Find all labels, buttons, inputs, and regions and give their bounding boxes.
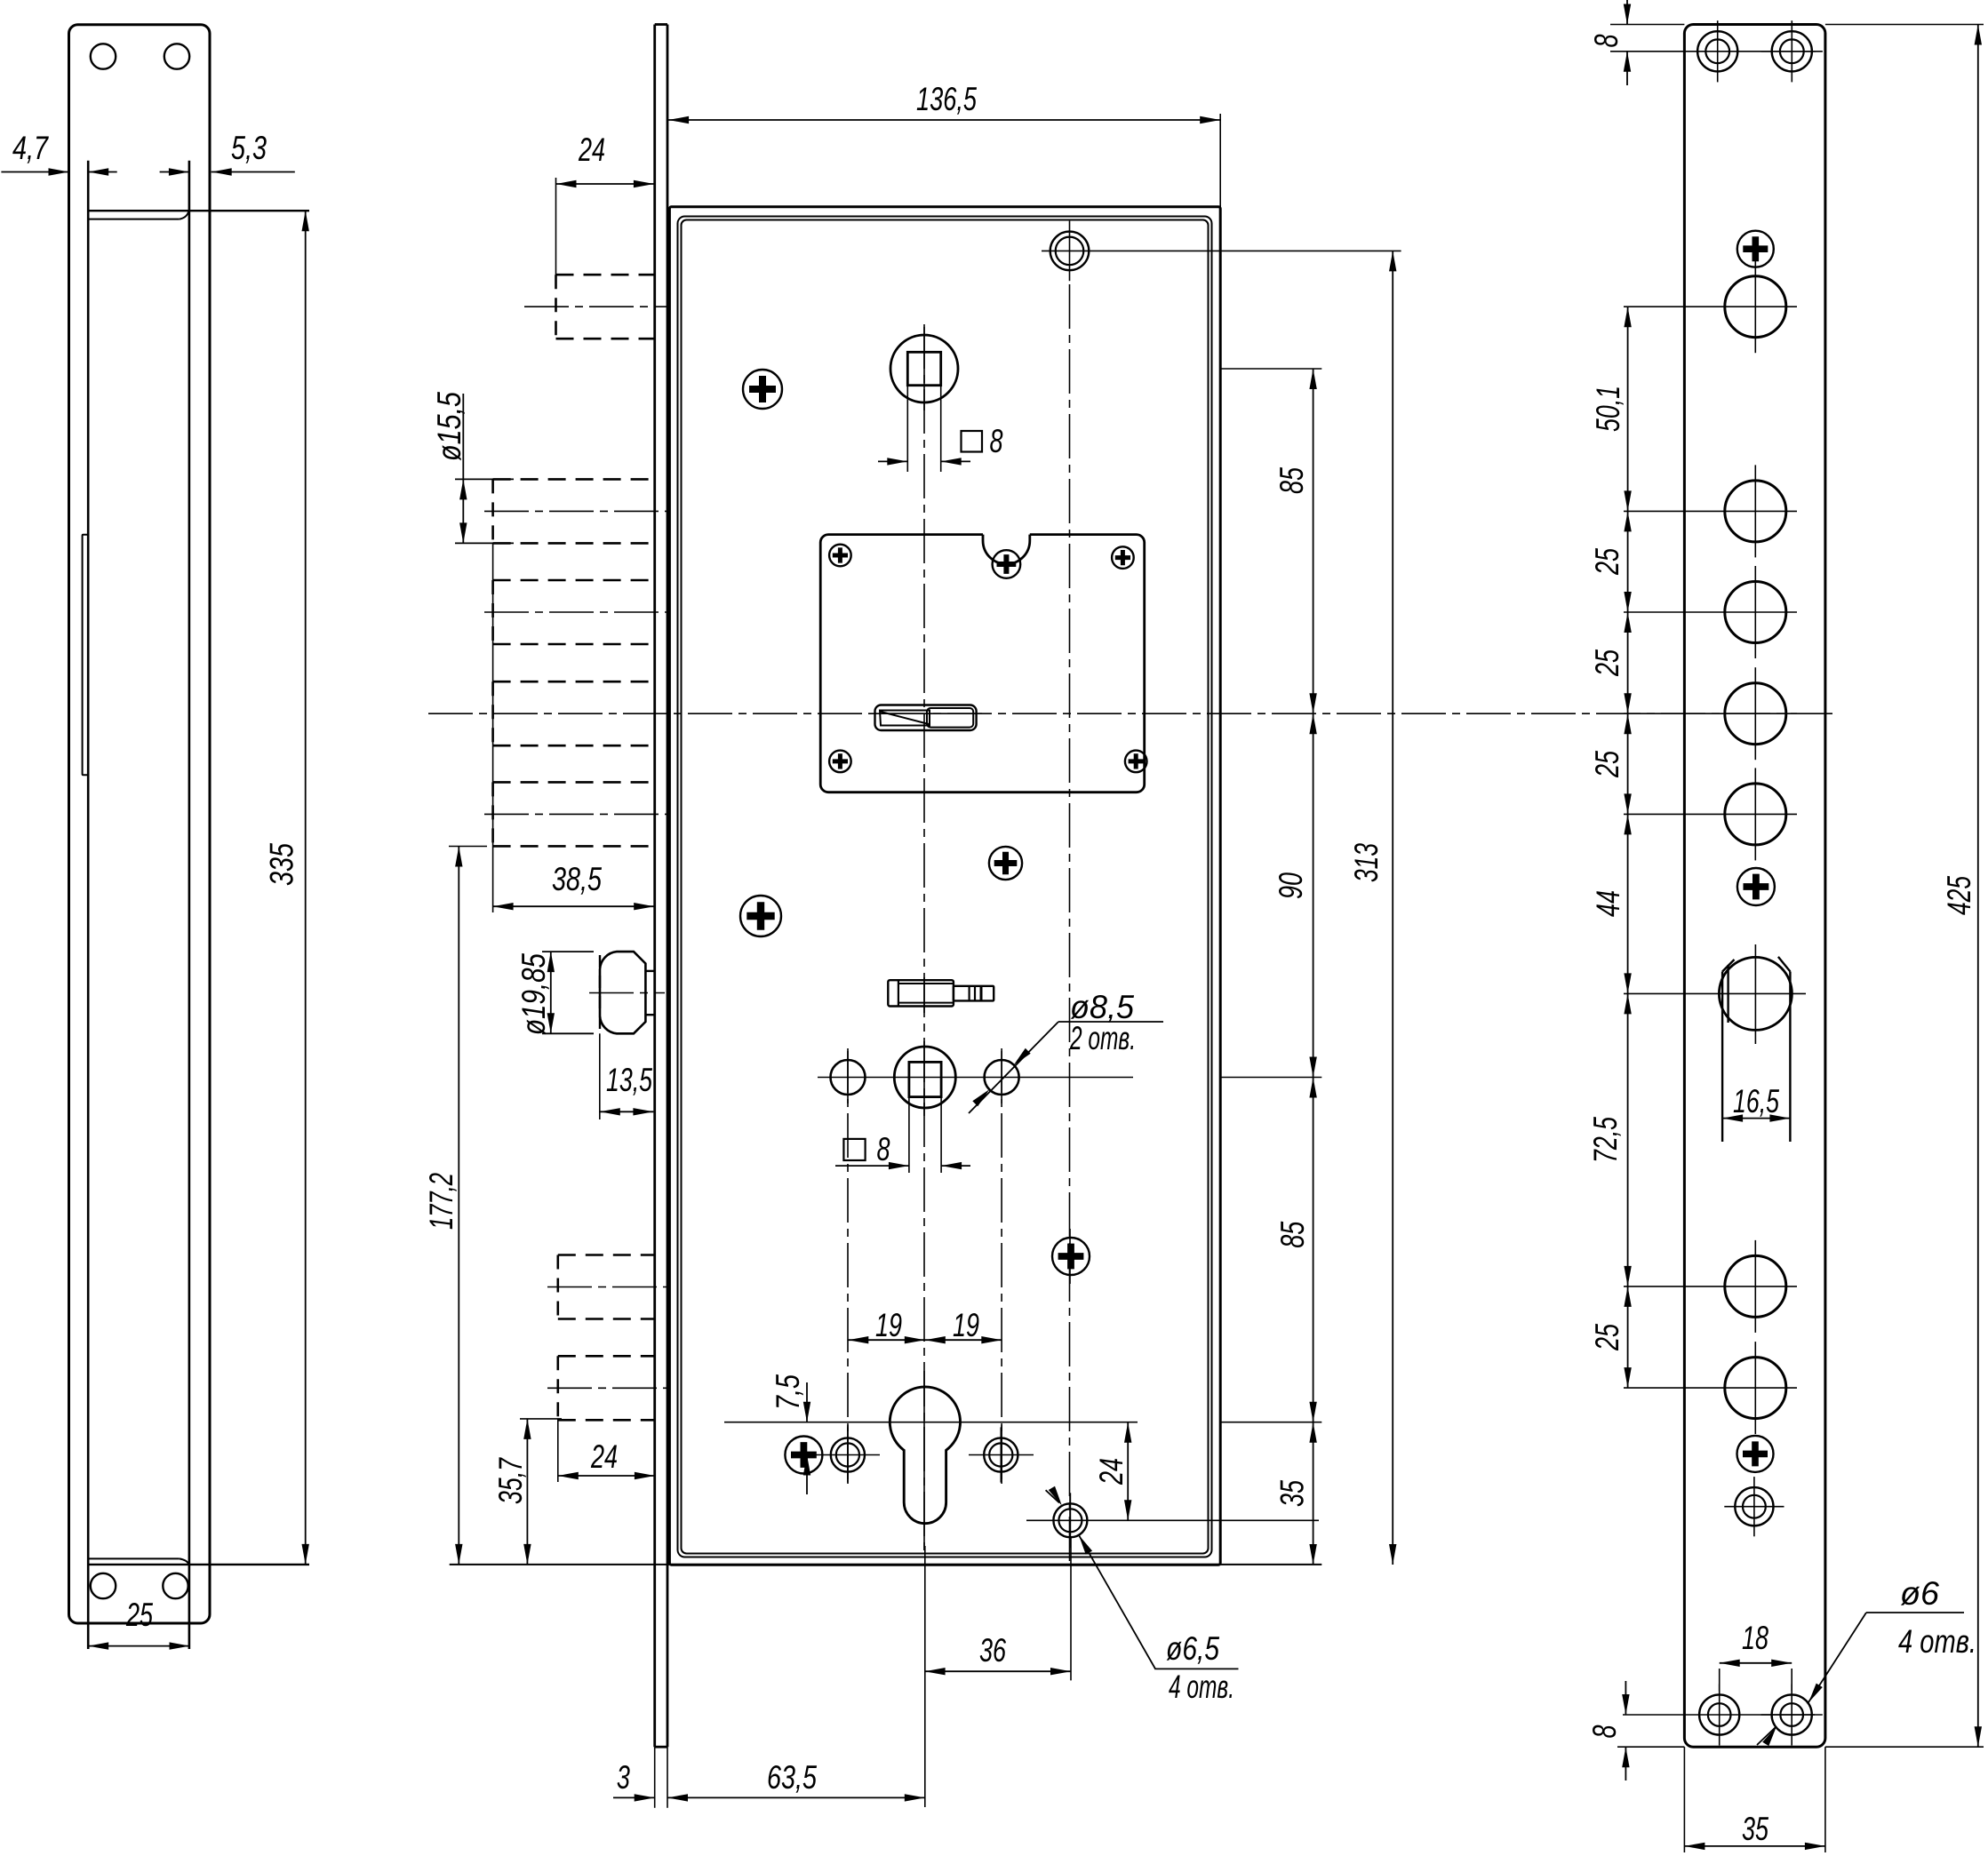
svg-text:63,5: 63,5 — [767, 1759, 817, 1796]
dimension 25 (left view bottom) — [88, 1597, 189, 1650]
svg-text:8: 8 — [1588, 34, 1625, 47]
dimension 313 — [1348, 251, 1396, 1565]
deadbolt B4 top (hidden) — [493, 681, 655, 683]
faceplate strip right line — [667, 25, 669, 1748]
body screw F (lower right) — [1052, 1238, 1090, 1275]
sq8 ext left — [906, 386, 908, 472]
upper spindle square 8x8 — [907, 352, 940, 385]
svg-text:35,7: 35,7 — [492, 1457, 529, 1504]
latch follower (middle view) — [888, 980, 994, 1006]
svg-text:8: 8 — [877, 1131, 890, 1167]
deadbolt B5 bottom (hidden) — [493, 845, 655, 848]
deadbolt B7 face (hidden) — [556, 1356, 559, 1420]
dimension phi 15,5 (deadbolt B2) — [431, 392, 514, 544]
latch flat bottom line — [645, 1014, 654, 1016]
latch window (right view) — [1624, 944, 1806, 1142]
ext left — [555, 178, 557, 275]
deadbolt B2 top (hidden) — [493, 478, 655, 481]
top edge ext left — [1610, 24, 1684, 26]
deadbolt B7 axis — [547, 1387, 667, 1389]
dimension chain 85/90/85/35 — [1220, 369, 1321, 1565]
body screw G (bottom left) — [785, 1437, 822, 1474]
euro profile cylinder hole — [724, 1387, 1321, 1524]
deadbolt B6 face (hidden) — [556, 1255, 559, 1319]
lower spindle square 8x8 — [909, 1062, 941, 1096]
faceplate screw middle — [1737, 868, 1775, 905]
screw in plate notch — [993, 550, 1021, 578]
deadbolt B5 face (hidden) — [491, 782, 494, 846]
faceplate strip bottom edge — [655, 1746, 667, 1748]
svg-text:24: 24 — [590, 1438, 618, 1475]
bottom edge ext left — [1617, 1746, 1684, 1748]
left view top lip line — [88, 219, 180, 220]
svg-text:24: 24 — [578, 131, 605, 168]
svg-text:35: 35 — [1742, 1811, 1768, 1847]
svg-text:7,5: 7,5 — [770, 1374, 806, 1410]
middle view: lock body — [655, 25, 1220, 1808]
left view bottom hole 2 — [163, 1573, 188, 1598]
right inner auxiliary vertical axis — [1001, 1048, 1002, 1479]
dimension 13,5 — [600, 1033, 654, 1119]
latch chamfer right — [1778, 957, 1791, 972]
svg-text:25: 25 — [1589, 1324, 1625, 1351]
deadbolt B7 top (hidden) — [558, 1355, 655, 1358]
svg-text:36: 36 — [979, 1632, 1006, 1669]
svg-text:4 отв.: 4 отв. — [1169, 1669, 1234, 1705]
dimension 38,5 — [493, 543, 655, 912]
deadbolt B4 bottom (hidden) — [493, 745, 655, 747]
deadbolt B1 face (hidden) — [555, 275, 557, 339]
svg-text:3: 3 — [617, 1759, 630, 1796]
square symbol of dim 8 — [962, 431, 983, 452]
svg-text:72,5: 72,5 — [1587, 1117, 1624, 1163]
deadbolt B5 axis — [484, 813, 667, 815]
lock body inner plate outline 2 — [682, 220, 1209, 1554]
svg-text:313: 313 — [1348, 843, 1385, 882]
top fixing screw hole right — [1761, 20, 1823, 82]
deadbolt B3 bottom (hidden) — [493, 643, 655, 646]
washer hole left of cylinder — [796, 1427, 880, 1482]
lower spindle axis extension right — [1220, 1077, 1321, 1079]
dimension 335 (left view) — [264, 211, 309, 1565]
main vertical axis (spindle/cylinder) — [923, 324, 925, 1550]
latch slot right side / ext — [1789, 972, 1791, 1143]
svg-text:38,5: 38,5 — [552, 861, 602, 897]
left view bottom chamfer arc — [180, 1558, 189, 1564]
dimension chain 50,1 / 25x3 / 44 / 72,5 / 25 — [1587, 307, 1632, 1388]
dimension 35 (plate width) — [1684, 1811, 1824, 1850]
left view bottom lip line — [88, 1557, 180, 1559]
dimension 36 — [925, 1537, 1071, 1680]
lower square spindle hub — [835, 1047, 970, 1173]
svg-text:44: 44 — [1590, 890, 1626, 917]
plate corner screw top-left — [829, 545, 851, 567]
dimension phi 19,85 (latch) — [515, 952, 594, 1035]
dimension 24 (top deadbolt) — [556, 131, 654, 275]
left view top hole 1 — [91, 44, 116, 68]
deadbolt B2 axis — [484, 510, 667, 512]
svg-text:ø19,85: ø19,85 — [515, 953, 552, 1035]
deadbolt B1 bottom (hidden) — [556, 338, 655, 340]
dimension 24 (cylinder to washer) — [1093, 1422, 1131, 1521]
svg-text:177,2: 177,2 — [423, 1173, 459, 1230]
latch chamfer left — [1722, 960, 1734, 972]
deadbolt B2 face (hidden) — [491, 479, 494, 543]
leader phi 6,5 4 holes — [1046, 1486, 1239, 1705]
left view bottom hole 1 — [91, 1573, 116, 1598]
cylinder horizontal axis — [724, 1422, 1138, 1423]
top edge ext right — [1825, 24, 1984, 26]
dimension 5,3 (left view) — [160, 130, 295, 176]
plate right ext for dim 35 — [1824, 1747, 1826, 1852]
plate left ext for dim 35 — [1683, 1747, 1685, 1852]
dimension 19 / 19 — [848, 1307, 1002, 1343]
bolt hole H2 — [1725, 481, 1786, 542]
deadbolt B7 bottom (hidden) — [558, 1419, 655, 1422]
bottom fixing screw hole right — [1761, 1684, 1823, 1745]
solid axis segments through features — [848, 327, 1070, 1550]
deadbolt B3 face (hidden) — [491, 580, 494, 644]
left view side strip (plate side view) — [83, 535, 89, 776]
ext from latch left edge — [599, 1033, 601, 1119]
ext from bolt left edge — [492, 543, 494, 912]
mounting plate (middle view) — [820, 535, 1144, 793]
ext at bolt B5 bottom — [449, 846, 487, 848]
svg-text:ø15,5: ø15,5 — [431, 392, 467, 461]
plate corner screw bottom-left — [829, 751, 851, 773]
dimension 7,5 — [770, 1374, 810, 1494]
svg-text:85: 85 — [1274, 1221, 1311, 1247]
dimension 16,5 — [1722, 1083, 1790, 1122]
left view top hole 2 — [164, 44, 189, 68]
deadbolt B4 face (hidden) — [491, 681, 494, 745]
svg-text:35: 35 — [1274, 1480, 1311, 1507]
square symbol of lower dim 8 — [843, 1139, 865, 1160]
lower spindle horizontal axis — [818, 1077, 1133, 1079]
ext line right — [1070, 1537, 1072, 1680]
dimension 425 — [1941, 25, 1982, 1748]
washer hole right of cylinder — [969, 1427, 1034, 1482]
lock body outer rectangle — [669, 207, 1220, 1565]
left view lock box left edge — [87, 161, 90, 1649]
svg-text:8: 8 — [990, 423, 1003, 459]
latch head (middle view) — [589, 952, 665, 1033]
bolt hole H3 — [1725, 582, 1786, 643]
deadbolt B6 bottom (hidden) — [558, 1318, 655, 1320]
left view lock box right edge — [188, 161, 191, 1649]
dimension 8 (top) — [1588, 0, 1631, 85]
ext at bolt B7 bottom — [520, 1418, 562, 1420]
bolt hole H5 — [1725, 784, 1786, 845]
bolt hole H4 — [1725, 683, 1786, 745]
faceplate washer hole lower — [1724, 1477, 1784, 1536]
left view outer plate — [69, 25, 211, 1623]
bottom edge ext right — [1825, 1746, 1984, 1748]
right view: faceplate front — [1610, 25, 1984, 1853]
svg-text:ø6: ø6 — [1900, 1575, 1939, 1612]
latch hidden edge — [599, 955, 601, 1031]
plate corner screw top-right — [1112, 546, 1134, 569]
leader phi 8,5 2 holes — [969, 989, 1163, 1113]
hole phi 8,5 left — [831, 1060, 866, 1095]
svg-text:ø6,5: ø6,5 — [1166, 1630, 1219, 1667]
leader phi 6 4 holes (right view) — [1757, 1575, 1976, 1746]
deadbolt B6 top (hidden) — [558, 1254, 655, 1256]
faceplate ext for dim 3 — [667, 1747, 668, 1808]
svg-text:25: 25 — [1589, 548, 1625, 576]
svg-text:13,5: 13,5 — [606, 1062, 652, 1098]
mounting plate notch — [983, 535, 1030, 564]
lock body inner plate outline — [678, 217, 1212, 1557]
svg-text:4,7: 4,7 — [12, 130, 49, 166]
latch chord line — [1727, 965, 1729, 1023]
washer hole lower right (phi 6,5) — [1026, 1493, 1319, 1548]
body screw A (upper left) — [743, 370, 782, 409]
svg-text:85: 85 — [1273, 467, 1310, 494]
svg-text:24: 24 — [1093, 1458, 1130, 1486]
left view top chamfer arc — [180, 211, 189, 219]
deadbolt B1 top (hidden) — [556, 274, 655, 276]
svg-text:16,5: 16,5 — [1733, 1083, 1779, 1119]
deadbolt B5 top (hidden) — [493, 781, 655, 784]
left view lock box top edge + 335 extension — [88, 210, 309, 211]
latch flat top line — [645, 970, 654, 972]
latch vertical axis — [1754, 944, 1756, 1044]
right auxiliary vertical axis — [1069, 284, 1071, 1564]
svg-text:90: 90 — [1273, 872, 1309, 899]
svg-text:18: 18 — [1742, 1620, 1768, 1656]
latch horizontal axis — [1624, 992, 1806, 994]
svg-text:25: 25 — [125, 1597, 153, 1633]
svg-text:19: 19 — [875, 1307, 902, 1343]
washer hole top right (phi 6,5) — [1042, 221, 1401, 282]
dimension 177,2 — [423, 847, 487, 1565]
left auxiliary vertical axis — [847, 1048, 849, 1479]
bottom reference line — [450, 1564, 1322, 1565]
deadbolt B3 top (hidden) — [493, 579, 655, 582]
svg-text:50,1: 50,1 — [1590, 386, 1626, 432]
left view: side view of faceplate assembly — [69, 25, 310, 1649]
deadbolt B2 bottom (hidden) — [493, 542, 655, 545]
left view lock box bottom edge + 335 extension — [88, 1564, 309, 1565]
ext upper spindle axis — [1220, 368, 1321, 370]
bolt hole H6 — [1725, 1255, 1786, 1317]
svg-text:25: 25 — [1589, 751, 1625, 778]
svg-text:4 отв.: 4 отв. — [1898, 1623, 1976, 1660]
body screw D (mid left) — [740, 896, 781, 936]
svg-text:25: 25 — [1589, 649, 1625, 677]
main horizontal axis through B4 / lever / right view hole — [428, 713, 1832, 714]
dimension 136,5 — [668, 81, 1220, 207]
upper square spindle hub — [878, 335, 1003, 472]
hole phi 8,5 right — [985, 1060, 1019, 1095]
dimension 35,7 — [492, 1419, 562, 1565]
svg-text:136,5: 136,5 — [916, 81, 977, 117]
deadbolt B3 axis — [484, 611, 667, 613]
body screw E (mid right) — [989, 847, 1022, 880]
plate corner screw bottom-right — [1125, 751, 1147, 773]
faceplate screw lower — [1737, 1436, 1774, 1472]
dimension 24 (lower deadbolts) — [558, 1419, 655, 1482]
sq8 ext right — [940, 386, 942, 472]
svg-text:2 отв.: 2 отв. — [1069, 1020, 1136, 1056]
bolt hole H7 — [1725, 1358, 1786, 1419]
faceplate strip top edge — [655, 23, 667, 26]
latch slot left side / ext — [1721, 972, 1723, 1143]
bottom fixing screw hole left — [1623, 1684, 1815, 1745]
deadbolt B1 axis — [524, 306, 667, 307]
deadbolt B6 axis — [547, 1286, 667, 1288]
svg-text:19: 19 — [953, 1307, 979, 1343]
top fixing screw hole left — [1610, 20, 1816, 82]
faceplate screw upper — [1737, 231, 1774, 267]
main axis ext to bottom dims — [924, 1546, 926, 1807]
latch axis — [589, 992, 665, 994]
faceplate strip left line — [653, 25, 656, 1748]
svg-text:335: 335 — [264, 843, 300, 886]
bolt hole H1 — [1725, 276, 1786, 338]
svg-text:5,3: 5,3 — [231, 130, 267, 166]
dimension 3 and 63,5 — [613, 1546, 925, 1807]
dimension 18 (bottom screws) — [1720, 1620, 1792, 1691]
ext right — [1219, 114, 1221, 207]
faceplate plate outline — [1684, 25, 1824, 1748]
svg-text:425: 425 — [1941, 876, 1977, 915]
dimension 4,7 (left view) — [1, 130, 116, 176]
svg-text:8: 8 — [1586, 1725, 1623, 1738]
faceplate ext for dim 3 — [654, 1747, 656, 1808]
dimension 8 (bottom) — [1586, 1681, 1630, 1780]
cylinder axis ext right — [1220, 1422, 1321, 1423]
ext left — [557, 1419, 559, 1482]
lever handle on mounting plate — [875, 705, 977, 731]
